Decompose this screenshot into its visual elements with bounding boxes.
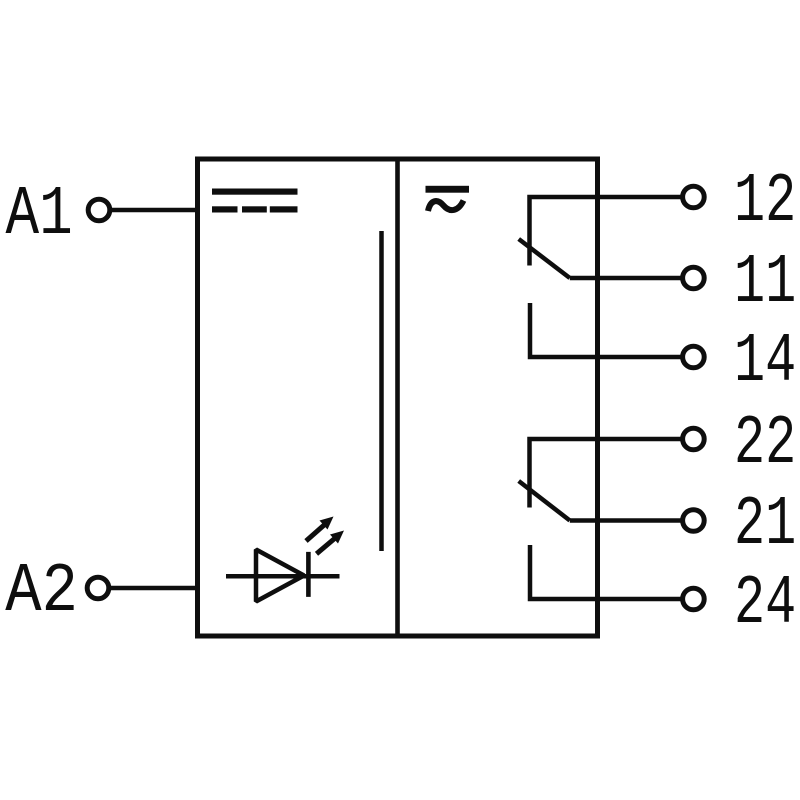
relay body outline K1: [198, 159, 598, 636]
terminal 24 circle: [683, 588, 705, 610]
svg-text:A2: A2: [5, 552, 78, 631]
svg-text:21: 21: [734, 486, 796, 564]
LED D1 triangle (anode): [256, 550, 304, 602]
DC supply symbol (coil side): [212, 189, 298, 213]
contact 1 moving arm: [519, 239, 570, 278]
coil/contact divider wall: [395, 157, 400, 637]
svg-text:A1: A1: [6, 176, 73, 256]
wire to 21: [570, 518, 681, 523]
svg-text:14: 14: [734, 323, 796, 401]
terminal A2 circle: [87, 577, 109, 599]
svg-text:24: 24: [734, 565, 796, 643]
LED D1 axis wire: [226, 574, 340, 579]
terminal 11 circle: [683, 267, 705, 289]
coil bar (inner vertical line): [379, 231, 384, 551]
LED D1 cathode bar: [306, 552, 311, 597]
LED light arrow 2: [317, 531, 345, 554]
wire A1 to coil box: [112, 208, 197, 213]
terminal A1 circle: [88, 199, 110, 221]
contact 2 NO leg and wire to 24: [530, 545, 681, 599]
LED light arrow 1: [306, 517, 334, 542]
svg-text:11: 11: [734, 244, 796, 322]
svg-text:22: 22: [734, 405, 796, 483]
terminal 21 circle: [683, 510, 705, 532]
terminal 12 circle: [683, 186, 705, 208]
wire to 11: [570, 276, 681, 281]
svg-text:12: 12: [734, 163, 796, 241]
contact 1: wire to 12 with NC leg: [530, 197, 682, 266]
contact 2: wire to 22 with NC leg: [530, 439, 682, 508]
wire A2 to coil box: [111, 586, 197, 591]
terminal 14 circle: [683, 346, 705, 368]
contact 2 moving arm: [519, 481, 570, 521]
rectified-AC symbol (contact side): [426, 186, 470, 211]
terminal 22 circle: [683, 428, 705, 450]
contact 1 NO leg and wire to 14: [530, 303, 681, 357]
